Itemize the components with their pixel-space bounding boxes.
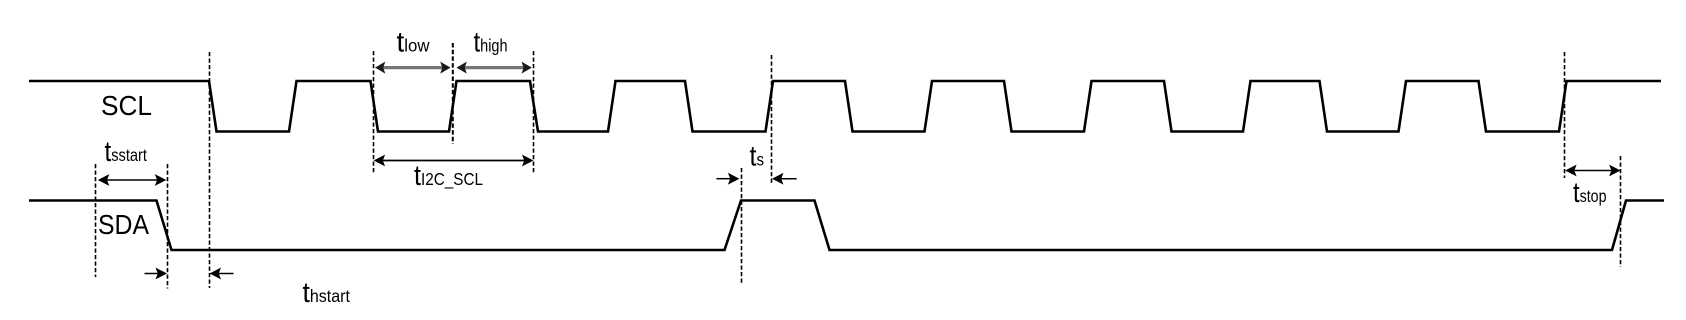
svg-text:tstop: tstop [1573,177,1607,209]
dashed guide line at x=771 (SCL rise, ts right) [771,55,773,185]
arrow thstart left (points right, tip at 167,273.5) [145,268,168,280]
svg-text:tsstart: tsstart [105,136,148,168]
dashed guide line at x=1620 (SDA rise, tstop right) [1620,156,1622,267]
svg-text:SCL: SCL [101,90,152,121]
arrow tI2C_SCL (black double-headed, x 373.6..533.5, y 160.5) [374,155,534,167]
arrow ts left (points right, tip at 739.4,178.7) [716,173,739,185]
arrow thstart right (points left, tip at 209.5,273.5) [210,268,234,280]
dashed guide line at x=96 (tsstart left) [95,164,97,277]
dashed guide line at x=209 (SCL first fall) [209,52,211,288]
SCL waveform [29,81,1661,132]
dashed guide line at x=373 (tlow left / tI2C_SCL left) [373,51,375,174]
arrow tsstart (double-headed, x 97.8..166.3, y 180) [98,174,167,186]
svg-text:ts: ts [750,141,765,173]
svg-text:thstart: thstart [303,277,351,309]
svg-text:tlow: tlow [397,27,430,59]
svg-text:thigh: thigh [474,27,508,59]
dashed guide line at x=1564 (SCL last rise, tstop left) [1564,52,1566,178]
arrow tlow (gray shaft, black swept heads, x 375..450.5, y 67.6) [375,62,451,74]
svg-text:SDA: SDA [98,209,149,240]
arrow thigh (gray shaft, black swept heads, x 456.5..531.8, y 67.6) [457,62,532,74]
dashed guide line at x=167 (SDA fall / tsstart right) [167,164,169,289]
dashed guide line at x=534 (thigh right / tI2C_SCL right) [533,51,535,174]
arrow ts right (points left, tip at 772,178.7) [772,173,797,185]
dash-dot guide line at x=453 (tlow/thigh boundary) [452,43,454,144]
dashed guide line at x=741 (SDA rise, ts left) [741,168,743,283]
arrow tstop (double-headed, x 1565.1..1620.6, y 170.5) [1565,165,1621,177]
SDA waveform [29,201,1664,251]
svg-text:tI2C_SCL: tI2C_SCL [414,160,483,192]
